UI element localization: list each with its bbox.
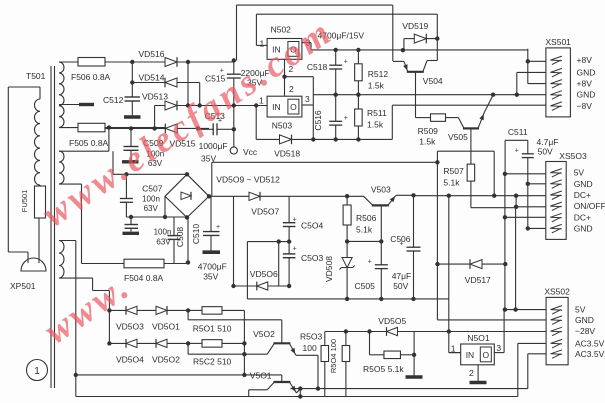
svg-text:R5O1 510: R5O1 510: [193, 324, 232, 334]
svg-text:5V: 5V: [574, 168, 585, 178]
svg-text:T501: T501: [26, 71, 46, 81]
connector XS503: [546, 162, 566, 240]
svg-text:DC+: DC+: [574, 212, 591, 222]
wire XS503 5V line: [505, 173, 546, 175]
svg-text:FU501: FU501: [20, 190, 29, 213]
svg-text:2: 2: [289, 84, 294, 94]
svg-text:1: 1: [451, 344, 456, 354]
svg-text:IN: IN: [272, 102, 281, 112]
wire w3 bottom to diode rows bus: [59, 277, 93, 279]
wire raw+ rail to V1 node: [211, 162, 213, 196]
svg-text:35V: 35V: [203, 272, 218, 282]
svg-text:R509: R509: [418, 126, 439, 136]
svg-text:VD517: VD517: [465, 275, 491, 285]
svg-text:ON/OFF: ON/OFF: [574, 201, 605, 211]
wire AC3.5V rail lower: [75, 241, 77, 397]
wire w2 top lead riser: [108, 128, 110, 152]
svg-text:VD5O4: VD5O4: [116, 355, 144, 365]
svg-text:+8V: +8V: [577, 55, 593, 65]
svg-text:50V: 50V: [393, 281, 408, 291]
svg-text:R512: R512: [368, 69, 389, 79]
svg-text:C5O3: C5O3: [301, 253, 323, 263]
svg-text:V504: V504: [423, 76, 443, 86]
Vcc terminal: [233, 129, 235, 147]
svg-text:5.1k: 5.1k: [443, 178, 460, 188]
node VD516 output: [186, 60, 190, 64]
fuse F505: [78, 123, 105, 132]
svg-text:AC3.5V: AC3.5V: [575, 338, 605, 348]
node C515 top: [232, 58, 236, 62]
svg-text:N5O1: N5O1: [467, 333, 489, 343]
wire C513 row to Vcc stub: [232, 127, 236, 131]
svg-text:1.5k: 1.5k: [367, 120, 384, 130]
transformer T501 primary winding: [7, 87, 9, 252]
svg-text:63V: 63V: [144, 204, 159, 213]
wire V503 base down: [379, 239, 383, 243]
wire F505 to VD515 row: [105, 127, 166, 129]
wire -28V rail: [325, 331, 546, 333]
wire w1 center tap: [59, 104, 79, 106]
svg-text:R511: R511: [367, 108, 387, 118]
wire R507 bottom to ON/OFF: [471, 207, 518, 209]
svg-text:GND: GND: [577, 67, 596, 77]
svg-text:VD5O9 ~ VD512: VD5O9 ~ VD512: [216, 175, 280, 185]
svg-text:XS501: XS501: [545, 37, 571, 47]
+raw row to C513 / N503: [177, 105, 267, 107]
svg-text:V505: V505: [448, 132, 468, 142]
wire V504 base down: [415, 72, 417, 118]
svg-text:XP501: XP501: [10, 281, 36, 291]
svg-text:C512: C512: [103, 95, 124, 105]
wire N501 pin3 to 5V: [503, 310, 505, 353]
wire bridge bottom to F504 row: [187, 218, 189, 264]
wire DC+/ON-OFF column down: [515, 207, 517, 310]
wire V505 emitter to GND rail: [485, 95, 494, 112]
svg-text:O: O: [482, 350, 489, 360]
svg-text:3: 3: [305, 94, 310, 104]
svg-text:VD5O2: VD5O2: [152, 355, 180, 365]
wire bridge AC2 row: [126, 216, 187, 218]
regulator N503: [267, 96, 302, 117]
wire V502 emitter: [296, 354, 318, 356]
svg-text:R5O5 5.1k: R5O5 5.1k: [363, 364, 404, 374]
node C512 top: [130, 60, 134, 64]
svg-text:GND: GND: [574, 223, 593, 233]
svg-text:C510: C510: [191, 224, 201, 245]
wire XS502 GND rail: [438, 319, 547, 321]
wire GND riser at x313: [312, 77, 314, 140]
ground at N501 pin2: [477, 365, 479, 381]
svg-text:2: 2: [469, 368, 474, 378]
wire DC+ drop V2: [448, 196, 450, 332]
svg-text:VD5O1: VD5O1: [152, 322, 180, 332]
svg-text:VD513: VD513: [142, 92, 168, 102]
svg-text:VD514: VD514: [139, 73, 165, 83]
DC+ rail to XS503: [414, 195, 546, 197]
svg-text:F506 0.8A: F506 0.8A: [71, 72, 111, 82]
GND rail: [313, 94, 546, 96]
svg-text:V5O2: V5O2: [253, 329, 275, 339]
svg-text:1000μF: 1000μF: [199, 141, 228, 151]
chassis bar below C512: [124, 115, 141, 118]
svg-text:+8V: +8V: [577, 79, 593, 89]
wire ON/OFF: [518, 206, 546, 208]
svg-text:F505 0.8A: F505 0.8A: [69, 138, 109, 148]
wire N503 pin3: [302, 104, 313, 106]
node w2 riser joins F505 row: [107, 125, 111, 129]
svg-text:IN: IN: [466, 350, 475, 360]
secondary winding w1: [59, 62, 64, 128]
svg-text:VD5O7: VD5O7: [251, 207, 279, 217]
svg-text:+: +: [400, 241, 404, 248]
wire N502 pin3 to +8V rail: [302, 42, 311, 44]
wire XS502 5V: [505, 309, 546, 311]
svg-text:R5O4 100: R5O4 100: [329, 339, 338, 373]
svg-text:C505: C505: [355, 281, 376, 291]
svg-text:C507: C507: [142, 184, 163, 194]
wire C504/C503 mid links: [277, 239, 281, 243]
connector XS502: [546, 297, 568, 364]
wire F506 to VD516 row: [105, 61, 166, 63]
ground below R505: [413, 355, 415, 376]
diode row 1: [107, 308, 111, 312]
svg-text:V503: V503: [371, 185, 391, 195]
page marker circled 1: [27, 360, 48, 381]
svg-text:+: +: [216, 224, 220, 231]
svg-text:1: 1: [34, 366, 40, 377]
wire top frame inner: [255, 14, 257, 45]
svg-text:F504 0.8A: F504 0.8A: [124, 273, 164, 283]
wire V501 emitter to AC rail: [297, 389, 301, 393]
svg-text:1.5k: 1.5k: [419, 137, 436, 147]
chassis bar below 100n: [123, 232, 140, 235]
wire top frame outer: [236, 5, 238, 60]
svg-text:+: +: [344, 115, 348, 122]
svg-text:O: O: [290, 102, 297, 112]
svg-text:C5O4: C5O4: [301, 221, 323, 231]
fuse F506: [78, 58, 105, 67]
wire +8V feed: [527, 49, 529, 62]
wire w2 bottom lead: [59, 183, 82, 185]
svg-text:R507: R507: [443, 166, 464, 176]
svg-text:−8V: −8V: [577, 101, 593, 111]
svg-text:+: +: [515, 147, 519, 154]
wire GND pin2 link: [517, 71, 546, 73]
svg-text:XS5O3: XS5O3: [559, 151, 587, 161]
svg-text:V5O1: V5O1: [250, 371, 272, 381]
wire V502 collector row: [187, 343, 189, 354]
svg-text:5V: 5V: [575, 305, 586, 315]
svg-text:AC3.5V: AC3.5V: [575, 349, 605, 359]
wire 5V column: [504, 174, 506, 310]
wire V1 column: [436, 162, 438, 264]
node N502/N503 pin2: [282, 75, 286, 79]
wire V502 base feed: [187, 310, 189, 319]
wire N502 pin2 down: [284, 59, 286, 76]
svg-text:VD516: VD516: [139, 49, 165, 59]
bridge rectifier VD509-VD512: [165, 174, 209, 217]
mains plug XP501: [21, 258, 46, 271]
wire down to VD506 row: [233, 196, 235, 286]
transformer T501 core: [50, 66, 52, 388]
svg-text:100n: 100n: [142, 195, 160, 204]
wire V501 collector stub: [249, 389, 268, 391]
svg-text:+: +: [344, 59, 348, 66]
svg-text:GND: GND: [574, 179, 593, 189]
svg-text:1.5k: 1.5k: [368, 81, 385, 91]
wire VD514 right side down: [199, 83, 201, 106]
svg-text:XS502: XS502: [544, 287, 570, 297]
chassis bar at w1 tap: [79, 103, 94, 106]
fuse F504: [124, 259, 164, 268]
svg-text:3: 3: [496, 343, 501, 353]
chassis bar below C509: [122, 160, 139, 163]
wire bridge left corner down: [164, 196, 166, 217]
svg-text:50V: 50V: [538, 147, 553, 157]
svg-text:VD508: VD508: [324, 256, 334, 282]
svg-text:VD5O3: VD5O3: [116, 322, 144, 332]
svg-text:+: +: [368, 258, 372, 265]
secondary winding w2: [59, 151, 64, 184]
svg-text:4.7μF: 4.7μF: [537, 137, 559, 147]
wire AC3.5V rail upper: [290, 388, 527, 390]
chassis bar below C510 4700uF: [203, 250, 221, 254]
svg-text:R5O3: R5O3: [300, 332, 322, 342]
svg-text:C511: C511: [508, 127, 528, 137]
wire w2 top to bridge: [113, 173, 187, 175]
wire GND pins C511: [528, 183, 546, 185]
svg-text:Vcc: Vcc: [243, 147, 258, 157]
svg-text:R5C2 510: R5C2 510: [193, 357, 232, 367]
wire right bus x244: [243, 310, 245, 375]
svg-text:GND: GND: [575, 315, 594, 325]
wire N501 feed: [448, 332, 450, 353]
svg-text:+: +: [293, 246, 297, 253]
svg-text:VD519: VD519: [402, 21, 428, 31]
svg-text:VD5O5: VD5O5: [378, 316, 406, 326]
svg-text:−28V: −28V: [575, 326, 595, 336]
diode row 2: [107, 341, 111, 345]
svg-text:47μF: 47μF: [392, 271, 412, 281]
svg-text:DC+: DC+: [574, 190, 591, 200]
wire w1 bottom to fuse F505: [59, 127, 78, 129]
bottom rail of regulator section: [247, 298, 448, 300]
wire VD513 anode down to VD515 row: [154, 106, 156, 129]
wire dogleg to DC+ row: [436, 151, 438, 162]
svg-text:GND: GND: [577, 90, 596, 100]
svg-text:N503: N503: [272, 121, 293, 131]
svg-text:4700μF: 4700μF: [198, 262, 227, 272]
secondary winding w3: [59, 241, 64, 279]
svg-text:VD518: VD518: [274, 149, 300, 159]
wire -8V route up: [391, 105, 393, 139]
svg-text:5.1k: 5.1k: [356, 225, 373, 235]
wire w1 top to fuse F506: [59, 61, 78, 63]
wire VD516 cathode down to +raw row: [187, 62, 189, 106]
connector XS501: [546, 48, 571, 117]
node VD514 row at C512 column: [130, 80, 134, 84]
svg-text:VD5O6: VD5O6: [250, 269, 278, 279]
svg-text:C508: C508: [175, 227, 185, 248]
svg-text:R506: R506: [356, 213, 377, 223]
svg-text:C516: C516: [313, 110, 323, 131]
svg-text:100: 100: [303, 343, 317, 353]
